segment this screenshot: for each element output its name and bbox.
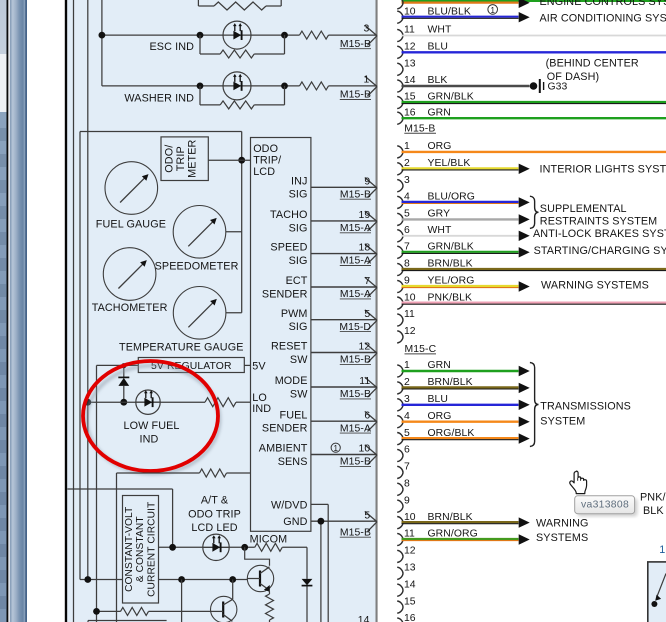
svg-text:ODO: ODO bbox=[253, 143, 278, 155]
svg-text:CURRENT CIRCUIT: CURRENT CIRCUIT bbox=[147, 502, 158, 597]
svg-text:METER: METER bbox=[187, 139, 199, 177]
svg-text:AMBIENT: AMBIENT bbox=[259, 443, 308, 455]
svg-text:7: 7 bbox=[364, 276, 370, 287]
svg-text:SYSTEM: SYSTEM bbox=[540, 415, 585, 427]
svg-text:ENGINE CONTROLS SYST: ENGINE CONTROLS SYST bbox=[540, 0, 666, 8]
svg-text:SUPPLEMENTAL: SUPPLEMENTAL bbox=[540, 203, 627, 215]
svg-text:5: 5 bbox=[364, 510, 370, 521]
svg-text:TRIP: TRIP bbox=[175, 146, 187, 171]
svg-text:GRY: GRY bbox=[428, 209, 451, 220]
svg-text:3: 3 bbox=[404, 394, 410, 405]
svg-text:11: 11 bbox=[404, 309, 415, 320]
svg-text:ECT: ECT bbox=[286, 275, 308, 287]
svg-text:TEMPERATURE GAUGE: TEMPERATURE GAUGE bbox=[119, 342, 243, 354]
svg-text:16: 16 bbox=[404, 613, 416, 622]
svg-text:SENS: SENS bbox=[278, 456, 308, 468]
svg-text:3: 3 bbox=[364, 24, 370, 35]
svg-text:IND: IND bbox=[140, 434, 159, 446]
svg-text:9: 9 bbox=[364, 176, 370, 187]
svg-text:6: 6 bbox=[404, 225, 410, 236]
svg-text:19: 19 bbox=[359, 210, 371, 221]
svg-text:SENDER: SENDER bbox=[262, 288, 308, 300]
svg-text:RESTRAINTS SYSTEM: RESTRAINTS SYSTEM bbox=[540, 216, 657, 228]
svg-text:1: 1 bbox=[333, 444, 338, 453]
svg-text:6: 6 bbox=[364, 410, 370, 421]
svg-text:7: 7 bbox=[404, 462, 410, 473]
svg-text:ESC IND: ESC IND bbox=[150, 41, 195, 53]
svg-text:WHT: WHT bbox=[428, 25, 453, 36]
svg-text:M15-C: M15-C bbox=[405, 344, 437, 355]
svg-text:WHT: WHT bbox=[428, 225, 453, 236]
svg-text:3: 3 bbox=[404, 175, 410, 186]
svg-text:5V: 5V bbox=[252, 361, 266, 373]
svg-text:MICOM: MICOM bbox=[250, 534, 288, 546]
svg-text:13: 13 bbox=[404, 59, 416, 70]
svg-text:SIG: SIG bbox=[289, 189, 308, 201]
svg-text:FUEL GAUGE: FUEL GAUGE bbox=[96, 218, 166, 230]
svg-text:9: 9 bbox=[404, 495, 410, 506]
svg-text:BLU: BLU bbox=[428, 394, 449, 405]
svg-text:ORG: ORG bbox=[428, 411, 452, 422]
svg-text:ODO TRIP: ODO TRIP bbox=[188, 508, 241, 520]
svg-text:12: 12 bbox=[404, 326, 416, 337]
svg-text:LCD: LCD bbox=[253, 166, 275, 178]
svg-text:18: 18 bbox=[359, 243, 371, 254]
svg-text:INJ: INJ bbox=[291, 175, 308, 187]
svg-text:SPEED: SPEED bbox=[270, 242, 307, 254]
svg-text:TACHO: TACHO bbox=[270, 209, 308, 221]
svg-text:RESET: RESET bbox=[271, 341, 308, 353]
svg-text:11: 11 bbox=[404, 25, 415, 36]
svg-text:1.: 1. bbox=[659, 544, 666, 556]
svg-text:12: 12 bbox=[404, 546, 416, 557]
svg-text:TACHOMETER: TACHOMETER bbox=[92, 302, 168, 314]
svg-text:M15-B: M15-B bbox=[340, 90, 371, 101]
svg-text:(BEHIND CENTER: (BEHIND CENTER bbox=[546, 58, 639, 70]
svg-text:GRN: GRN bbox=[428, 107, 451, 118]
svg-text:SPEEDOMETER: SPEEDOMETER bbox=[155, 261, 239, 273]
svg-text:SW: SW bbox=[290, 354, 308, 366]
svg-text:15: 15 bbox=[404, 596, 416, 607]
svg-text:W/DVD: W/DVD bbox=[271, 500, 308, 512]
svg-text:MODE: MODE bbox=[275, 375, 308, 387]
svg-text:ANTI-LOCK BRAKES SYSTE: ANTI-LOCK BRAKES SYSTE bbox=[533, 228, 666, 240]
svg-text:BLU: BLU bbox=[428, 42, 449, 53]
svg-text:1: 1 bbox=[404, 141, 410, 152]
svg-text:G33: G33 bbox=[548, 82, 568, 93]
svg-text:WASHER IND: WASHER IND bbox=[124, 92, 194, 104]
svg-text:13: 13 bbox=[404, 563, 416, 574]
svg-text:5: 5 bbox=[404, 209, 410, 220]
svg-text:SIG: SIG bbox=[289, 222, 308, 234]
svg-text:AIR CONDITIONING SYSTE: AIR CONDITIONING SYSTE bbox=[540, 13, 666, 25]
svg-text:INTERIOR LIGHTS SYSTEM: INTERIOR LIGHTS SYSTEM bbox=[540, 164, 666, 176]
svg-text:CONSTANT-VOLT: CONSTANT-VOLT bbox=[124, 507, 135, 592]
svg-text:11: 11 bbox=[359, 376, 370, 387]
svg-text:& CONSTANT: & CONSTANT bbox=[135, 516, 146, 582]
svg-text:SENDER: SENDER bbox=[262, 423, 308, 435]
svg-text:8: 8 bbox=[404, 479, 410, 490]
svg-text:GRN: GRN bbox=[428, 360, 451, 371]
svg-text:GND: GND bbox=[283, 516, 307, 528]
svg-text:PWM: PWM bbox=[281, 308, 308, 320]
svg-text:BLK: BLK bbox=[428, 75, 448, 86]
svg-text:ORG: ORG bbox=[428, 141, 452, 152]
svg-text:SIG: SIG bbox=[289, 255, 308, 267]
svg-text:5: 5 bbox=[364, 309, 370, 320]
svg-text:TRIP/: TRIP/ bbox=[253, 155, 281, 167]
svg-text:WARNING SYSTEMS: WARNING SYSTEMS bbox=[541, 279, 649, 291]
svg-text:IND: IND bbox=[252, 403, 271, 415]
svg-text:STARTING/CHARGING SYST: STARTING/CHARGING SYST bbox=[534, 245, 666, 257]
svg-text:12: 12 bbox=[359, 342, 371, 353]
svg-text:LCD LED: LCD LED bbox=[191, 522, 237, 534]
svg-text:BLK: BLK bbox=[643, 505, 664, 517]
svg-text:ODO/: ODO/ bbox=[164, 145, 176, 173]
svg-text:1: 1 bbox=[404, 360, 410, 371]
svg-text:A/T &: A/T & bbox=[201, 495, 229, 507]
svg-text:12: 12 bbox=[404, 42, 416, 53]
svg-text:16: 16 bbox=[404, 107, 416, 118]
svg-text:14: 14 bbox=[404, 75, 416, 86]
svg-text:SYSTEMS: SYSTEMS bbox=[536, 532, 588, 544]
svg-text:14: 14 bbox=[404, 579, 416, 590]
svg-text:FUEL: FUEL bbox=[280, 409, 308, 421]
svg-text:1: 1 bbox=[490, 6, 495, 15]
svg-text:PNK/: PNK/ bbox=[640, 492, 666, 504]
svg-text:6: 6 bbox=[404, 445, 410, 456]
svg-text:va313808: va313808 bbox=[581, 500, 629, 511]
svg-text:LOW FUEL: LOW FUEL bbox=[124, 420, 180, 432]
svg-text:SIG: SIG bbox=[289, 321, 308, 333]
svg-text:SW: SW bbox=[290, 388, 308, 400]
svg-text:TRANSMISSIONS: TRANSMISSIONS bbox=[540, 401, 631, 413]
svg-text:10: 10 bbox=[359, 444, 371, 455]
svg-text:WARNING: WARNING bbox=[536, 518, 588, 530]
svg-text:4: 4 bbox=[404, 411, 410, 422]
svg-text:1: 1 bbox=[364, 74, 370, 85]
svg-text:14: 14 bbox=[358, 615, 370, 622]
